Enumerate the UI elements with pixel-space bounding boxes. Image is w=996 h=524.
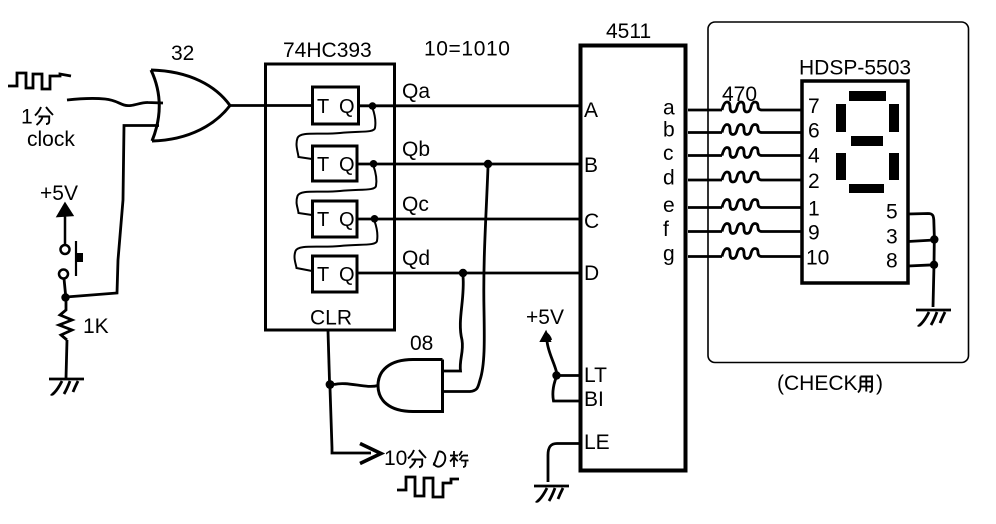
wire g + resistor 470: [688, 255, 801, 258]
svg-text:8: 8: [886, 250, 898, 273]
svg-text:Q: Q: [339, 264, 355, 286]
wire e + resistor 470: [688, 206, 801, 209]
wire contact to junction: [64, 279, 66, 295]
svg-text:Q: Q: [339, 96, 355, 118]
svg-text:08: 08: [410, 332, 433, 355]
7-segment: top-right segment: [889, 104, 899, 132]
svg-text:2: 2: [808, 170, 820, 193]
flip-flop FF3: [313, 201, 358, 237]
wire Qd junction to AND upper input: [443, 276, 463, 371]
resistor R1 1K: [59, 301, 72, 340]
svg-text:g: g: [663, 243, 675, 266]
node Qb to 08 junction: [484, 160, 492, 168]
pushbutton switch SW1 top contact: [61, 245, 70, 254]
wire Qb output line: [357, 163, 580, 166]
wire LE pin to ground: [548, 444, 580, 483]
ground (display): [916, 310, 951, 325]
svg-text:Qa: Qa: [402, 80, 430, 103]
wire a + resistor 470: [688, 109, 801, 112]
svg-text:5: 5: [886, 201, 898, 224]
svg-text:10=1010: 10=1010: [424, 38, 511, 61]
svg-text:CLR: CLR: [310, 307, 352, 330]
7-segment: top segment: [849, 91, 886, 101]
svg-text:C: C: [584, 210, 599, 233]
svg-text:BI: BI: [584, 388, 604, 411]
svg-text:4511: 4511: [606, 20, 651, 43]
svg-text:LE: LE: [584, 431, 610, 454]
+5V arrow symbol (4511): [541, 332, 550, 341]
svg-text:a: a: [663, 97, 675, 120]
svg-text:Qd: Qd: [402, 247, 430, 270]
7-segment: bottom-left segment: [836, 153, 846, 180]
+5V arrow symbol: [58, 204, 72, 244]
7-segment: bottom segment: [849, 184, 884, 193]
wire +5V to LT/BI junction: [547, 341, 557, 372]
svg-text:+5V: +5V: [40, 182, 78, 205]
svg-text:c: c: [663, 142, 674, 165]
7-segment: bottom-right segment: [889, 153, 899, 180]
AND gate U3 (7408, output left): [378, 360, 443, 412]
wire junction to BI pin: [553, 378, 580, 401]
svg-text:4: 4: [808, 145, 820, 168]
svg-text:10: 10: [384, 447, 407, 470]
wire Qa output line: [359, 104, 580, 107]
svg-text:): ): [876, 372, 883, 395]
svg-text:+5V: +5V: [526, 306, 564, 329]
wire pin 8 to common: [908, 265, 934, 266]
svg-text:Q: Q: [339, 154, 355, 176]
svg-text:T: T: [317, 154, 329, 176]
wire Qb junction to AND lower input: [443, 167, 488, 392]
feedback wire Q1 to T2: [297, 108, 376, 159]
svg-text:6: 6: [808, 120, 820, 143]
svg-text:LT: LT: [584, 364, 607, 387]
ground (left): [49, 379, 84, 394]
feedback wire Q3 to T4: [295, 221, 378, 271]
svg-text:1: 1: [21, 106, 33, 129]
svg-text:1: 1: [808, 198, 820, 221]
svg-text:HDSP-5503: HDSP-5503: [799, 57, 911, 80]
svg-text:f: f: [663, 218, 669, 241]
svg-text:b: b: [663, 119, 675, 142]
wire common to ground: [933, 240, 934, 307]
node LT/BI junction: [552, 371, 560, 379]
svg-text:1K: 1K: [83, 315, 109, 338]
svg-text:(CHECK: (CHECK: [777, 372, 858, 395]
svg-text:D: D: [584, 262, 599, 285]
wire f + resistor 470: [688, 230, 801, 233]
wire resistor to ground: [66, 340, 67, 378]
flip-flop FF4: [313, 256, 358, 292]
wire AND output to CLR junction: [334, 384, 378, 387]
ground (4511 LE): [534, 486, 569, 501]
wire CLR to junction: [328, 331, 330, 381]
svg-text:A: A: [584, 99, 598, 122]
junction node (switch / resistor / OR input): [61, 293, 69, 301]
node pin3 junction: [930, 235, 938, 243]
svg-text:74HC393: 74HC393: [283, 39, 372, 62]
display DS1 HDSP-5503 box: [802, 81, 908, 283]
OR gate U1 (7432): [151, 70, 230, 141]
7-segment: middle segment: [851, 136, 883, 146]
wire clock to OR gate input: [67, 98, 163, 105]
svg-text:3: 3: [886, 226, 898, 249]
svg-text:Qb: Qb: [402, 138, 430, 161]
node CLR junction: [326, 380, 335, 389]
node Qc feedback tap: [371, 215, 379, 223]
wire OR output to 74HC393 FF1: [229, 104, 312, 107]
node pin8 junction: [930, 261, 938, 269]
wire pin 3 to common: [908, 240, 934, 242]
svg-text:T: T: [317, 96, 329, 118]
flip-flop FF2: [313, 146, 358, 181]
svg-text:10: 10: [806, 247, 829, 270]
wire OR gate lower input: [66, 126, 159, 298]
flip-flop FF1: [313, 87, 359, 124]
wire Qd output line: [357, 272, 580, 275]
output waveform (10分の桁): [397, 477, 459, 497]
decoder U4 4511 box: [581, 46, 686, 471]
arrow to 10分の桁: [360, 444, 381, 464]
svg-text:7: 7: [808, 95, 820, 118]
svg-text:Q: Q: [339, 209, 355, 231]
wire d + resistor 470: [688, 179, 801, 182]
feedback wire Q2 to T3: [297, 166, 377, 215]
counter U2 74HC393 box: [266, 64, 395, 330]
svg-text:T: T: [317, 209, 329, 231]
svg-text:d: d: [663, 167, 675, 190]
wire junction to LT pin: [557, 374, 580, 377]
svg-text:32: 32: [171, 42, 194, 65]
wire pin 5 to common: [908, 214, 934, 237]
node Qa feedback tap: [369, 102, 377, 110]
pushbutton bottom contact: [59, 270, 68, 279]
svg-text:clock: clock: [27, 128, 75, 151]
node Qb feedback tap: [370, 160, 378, 168]
svg-text:e: e: [663, 194, 675, 217]
wire junction down to arrow: [330, 388, 371, 453]
wire b + resistor 470: [688, 131, 801, 134]
svg-text:Qc: Qc: [402, 193, 429, 216]
wire c + resistor 470: [688, 154, 801, 157]
pushbutton actuator: [75, 241, 77, 276]
node Qd to 08 junction: [459, 269, 467, 277]
svg-text:T: T: [317, 264, 329, 286]
CHECK enclosure box: [708, 22, 969, 363]
clock input waveform: [8, 73, 71, 89]
wire Qc output line: [357, 218, 580, 221]
7-segment: top-left segment: [836, 104, 846, 132]
svg-text:9: 9: [808, 222, 820, 245]
svg-text:B: B: [584, 154, 598, 177]
